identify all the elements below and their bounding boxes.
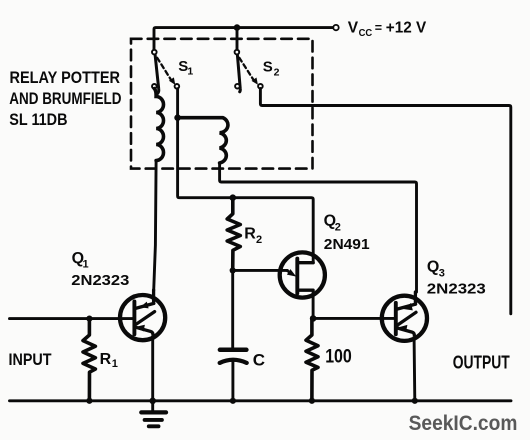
svg-text:C: C — [253, 351, 265, 370]
svg-text:R: R — [244, 226, 256, 243]
relay enclosure dashed box — [131, 39, 313, 169]
svg-text:CC: CC — [359, 27, 373, 39]
label Q3 — [427, 259, 445, 280]
wire coil K1A to Q1 anode — [154, 161, 156, 291]
watermark SeekIC.com — [409, 412, 518, 435]
junction R1 bottom — [86, 398, 92, 404]
wire top Vcc rail — [154, 28, 333, 50]
svg-text:2: 2 — [335, 221, 341, 233]
svg-text:100: 100 — [325, 346, 352, 367]
wire S1 branch down to R2 rail and Q2 B2 — [178, 118, 314, 263]
svg-text:1: 1 — [112, 358, 118, 370]
wire node to Q3 gate — [313, 317, 396, 320]
label 2N2323 (Q1) — [71, 272, 129, 289]
svg-text:2: 2 — [274, 66, 280, 78]
label S2 — [263, 58, 280, 78]
svg-text:=: = — [375, 21, 382, 35]
junction Q1 cathode / ground — [149, 398, 156, 405]
svg-text:3: 3 — [439, 267, 445, 279]
UJT Q2 2N491 — [280, 252, 325, 297]
wire node to Q2 emitter — [233, 269, 288, 272]
label R1 — [100, 351, 118, 370]
resistor 100 — [306, 318, 318, 400]
svg-text:V: V — [348, 20, 359, 37]
svg-text:+12 V: +12 V — [386, 20, 427, 37]
resistor R2 — [227, 198, 240, 271]
wire Q1 cathode to ground rail — [151, 339, 154, 401]
junction Q2 B1 / 100 ohm / Q3 gate node — [310, 315, 317, 322]
label RELAY POTTER AND BRUMFIELD SL11DB — [9, 68, 121, 129]
junction R2 / C / Q2 emitter node — [230, 267, 236, 273]
SCR Q1 2N2323 — [120, 290, 165, 340]
resistor R1 — [83, 319, 95, 401]
label Q2 — [324, 213, 341, 234]
svg-text:2N2323: 2N2323 — [427, 280, 486, 297]
label R2 — [244, 226, 262, 246]
svg-text:2N491: 2N491 — [324, 236, 370, 253]
svg-text:2N2323: 2N2323 — [71, 272, 129, 289]
label INPUT — [9, 350, 53, 369]
svg-text:OUTPUT: OUTPUT — [453, 352, 511, 373]
switch S1 — [152, 50, 179, 95]
svg-text:2: 2 — [256, 234, 262, 246]
wire top rail to S2 — [236, 28, 239, 50]
svg-text:R: R — [100, 351, 112, 368]
svg-text:S: S — [263, 58, 273, 75]
junction R2 top node — [230, 194, 237, 201]
junction S1-NO / coil K1B node — [174, 114, 181, 121]
label OUTPUT — [453, 352, 511, 373]
label 2N491 — [324, 236, 370, 253]
label C — [253, 351, 265, 370]
switch S2 — [235, 50, 263, 92]
junction C bottom — [230, 398, 236, 404]
wire S2 NO contact to right rail — [260, 89, 510, 314]
ground symbol — [141, 401, 166, 427]
svg-text:Q: Q — [427, 259, 439, 276]
wire ground rail — [10, 399, 512, 402]
junction top rail / S2 drop — [234, 24, 241, 31]
wire Q3 cathode to ground rail — [413, 340, 417, 401]
label VCC = +12 V — [348, 20, 427, 39]
label 2N2323 (Q3) — [427, 280, 486, 297]
svg-text:AND BRUMFIELD: AND BRUMFIELD — [9, 89, 121, 108]
svg-text:1: 1 — [187, 66, 193, 78]
junction 100 ohm bottom — [309, 398, 315, 404]
wire S1 NO contact down — [176, 89, 179, 118]
svg-text:SL 11DB: SL 11DB — [9, 110, 67, 129]
label Q1 — [72, 250, 89, 270]
junction Q3 cathode bottom — [412, 398, 418, 404]
relay coil K1A (left winding) — [154, 89, 163, 161]
label 100 — [325, 346, 352, 367]
terminal Vcc open circle — [333, 25, 338, 30]
svg-text:SeekIC.com: SeekIC.com — [409, 412, 518, 435]
junction INPUT / R1 node — [86, 316, 92, 322]
svg-text:1: 1 — [83, 258, 89, 270]
relay coil K1B (right winding) — [178, 118, 228, 163]
label S1 — [178, 58, 193, 78]
svg-text:RELAY POTTER: RELAY POTTER — [10, 68, 121, 87]
wire Q2 B1 down to gate node — [312, 290, 315, 318]
svg-text:INPUT: INPUT — [9, 350, 53, 369]
capacitor C — [220, 270, 247, 400]
wire INPUT rail — [10, 317, 135, 320]
wire coil K1B bottom to Q3 anode — [220, 163, 417, 292]
SCR Q3 2N2323 — [382, 292, 427, 341]
